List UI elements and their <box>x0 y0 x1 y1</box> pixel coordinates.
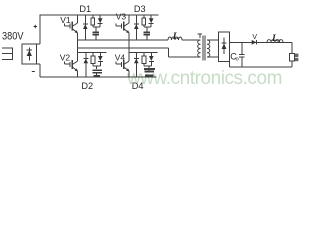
svg-text:o: o <box>277 39 280 45</box>
svg-text:D4: D4 <box>132 81 144 91</box>
svg-text:380V: 380V <box>2 31 24 43</box>
svg-text:V2: V2 <box>60 53 71 63</box>
svg-text:V1: V1 <box>60 15 71 25</box>
svg-text:V3: V3 <box>116 12 127 22</box>
svg-text:D2: D2 <box>81 81 93 91</box>
svg-text:o: o <box>236 56 239 62</box>
svg-text:V4: V4 <box>115 52 126 62</box>
svg-text:V: V <box>252 34 257 41</box>
svg-text:D1: D1 <box>79 4 91 14</box>
svg-text:D3: D3 <box>134 4 146 14</box>
svg-text:L: L <box>172 32 179 42</box>
